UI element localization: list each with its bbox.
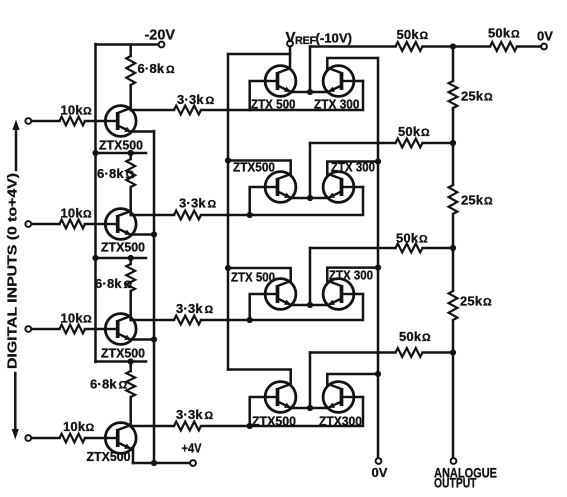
svg-text:V: V [286, 29, 296, 46]
svg-text:50k: 50k [396, 231, 419, 246]
svg-text:Ω: Ω [124, 279, 133, 291]
svg-text:10k: 10k [61, 206, 84, 221]
svg-text:Ω: Ω [421, 127, 430, 139]
svg-text:Ω: Ω [83, 106, 92, 118]
svg-text:0V: 0V [537, 29, 553, 44]
svg-text:50k: 50k [398, 124, 421, 139]
svg-text:ZTX500: ZTX500 [87, 450, 131, 464]
svg-text:Ω: Ω [166, 64, 175, 76]
svg-text:3·3k: 3·3k [179, 196, 206, 211]
svg-text:Ω: Ω [484, 196, 493, 208]
svg-text:ZTX 500: ZTX 500 [231, 271, 275, 285]
svg-text:ZTX500: ZTX500 [99, 139, 143, 153]
svg-text:6·8k: 6·8k [90, 377, 117, 392]
svg-text:Ω: Ω [126, 169, 135, 181]
svg-text:Ω: Ω [83, 314, 92, 326]
svg-text:Ω: Ω [205, 304, 214, 316]
svg-text:(-10V): (-10V) [316, 31, 353, 46]
svg-text:ZTX300: ZTX300 [319, 415, 362, 429]
svg-text:Ω: Ω [483, 297, 492, 309]
svg-text:Ω: Ω [420, 30, 429, 42]
svg-text:Ω: Ω [206, 95, 215, 107]
svg-text:ZTX 500: ZTX 500 [251, 98, 296, 112]
svg-text:Ω: Ω [83, 209, 92, 221]
svg-text:-20V: -20V [145, 28, 176, 44]
svg-text:10k: 10k [61, 311, 84, 326]
svg-text:10k: 10k [63, 419, 86, 434]
svg-text:ZTX500: ZTX500 [233, 161, 275, 175]
svg-text:6·8k: 6·8k [97, 166, 124, 181]
svg-text:Ω: Ω [205, 410, 214, 422]
svg-text:Ω: Ω [86, 422, 95, 434]
svg-text:10k: 10k [61, 103, 84, 118]
svg-text:DIGITAL INPUTS (0 to+4V): DIGITAL INPUTS (0 to+4V) [5, 173, 20, 369]
svg-text:ZTX500: ZTX500 [252, 415, 296, 429]
svg-text:Ω: Ω [119, 380, 128, 392]
svg-text:50k: 50k [397, 27, 420, 42]
svg-text:REF: REF [295, 35, 317, 47]
svg-text:Ω: Ω [419, 234, 428, 246]
svg-text:0V: 0V [372, 465, 388, 480]
svg-text:Ω: Ω [511, 29, 520, 41]
svg-text:50k: 50k [399, 329, 422, 344]
svg-text:50k: 50k [488, 26, 511, 41]
svg-text:6·8k: 6·8k [95, 276, 122, 291]
svg-text:6·8k: 6·8k [138, 61, 165, 76]
svg-text:ZTX 300: ZTX 300 [329, 269, 373, 283]
svg-text:25k: 25k [461, 89, 484, 104]
svg-text:25k: 25k [461, 193, 484, 208]
svg-text:Ω: Ω [208, 199, 217, 211]
svg-text:Ω: Ω [484, 92, 493, 104]
svg-text:ZTX 300: ZTX 300 [314, 98, 360, 112]
svg-text:ZTX 300: ZTX 300 [331, 161, 375, 175]
svg-text:3·3k: 3·3k [176, 301, 203, 316]
svg-text:ZTX500: ZTX500 [101, 241, 145, 255]
svg-text:ZTX500: ZTX500 [101, 347, 145, 361]
svg-text:+4V: +4V [182, 442, 203, 456]
svg-text:OUTPUT: OUTPUT [434, 475, 477, 491]
svg-text:3·3k: 3·3k [176, 407, 203, 422]
svg-text:3·3k: 3·3k [177, 92, 204, 107]
svg-text:25k: 25k [460, 294, 483, 309]
svg-text:Ω: Ω [422, 332, 431, 344]
